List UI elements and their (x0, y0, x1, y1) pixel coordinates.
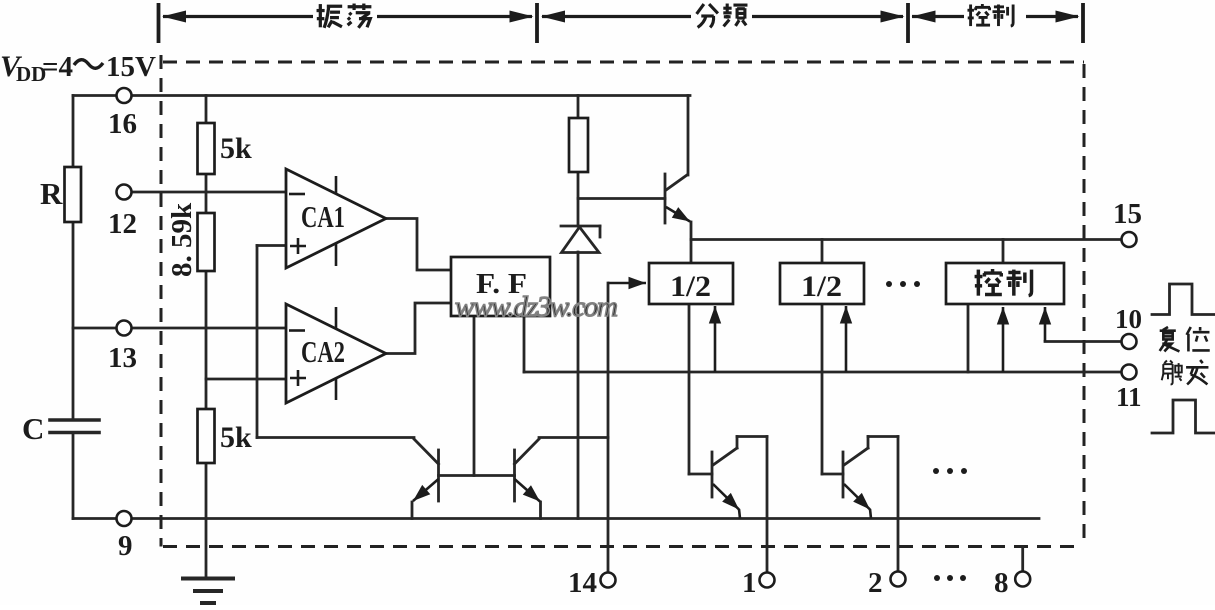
svg-text:CA1: CA1 (301, 199, 345, 234)
svg-text:15V: 15V (106, 51, 156, 83)
svg-text:14: 14 (568, 567, 597, 599)
svg-text:R: R (40, 176, 63, 211)
svg-text:10: 10 (1115, 304, 1142, 334)
svg-text:1/2: 1/2 (801, 270, 842, 303)
svg-text:C: C (22, 411, 44, 446)
svg-text:8. 59k: 8. 59k (166, 202, 198, 277)
svg-text:9: 9 (118, 530, 133, 562)
svg-text:8: 8 (994, 567, 1009, 599)
svg-text:15: 15 (1113, 198, 1142, 230)
svg-text:13: 13 (108, 342, 137, 374)
svg-text:5k: 5k (220, 421, 252, 454)
svg-text:CA2: CA2 (301, 334, 345, 369)
svg-text:16: 16 (108, 108, 137, 140)
svg-text:www.dz3w.com: www.dz3w.com (455, 291, 618, 323)
svg-text:12: 12 (108, 208, 137, 240)
svg-text:1/2: 1/2 (670, 270, 711, 303)
svg-text:5k: 5k (220, 132, 252, 165)
svg-text:11: 11 (1116, 382, 1142, 412)
svg-text:=4: =4 (42, 51, 73, 83)
svg-text:1: 1 (742, 567, 757, 599)
svg-text:2: 2 (868, 567, 883, 599)
